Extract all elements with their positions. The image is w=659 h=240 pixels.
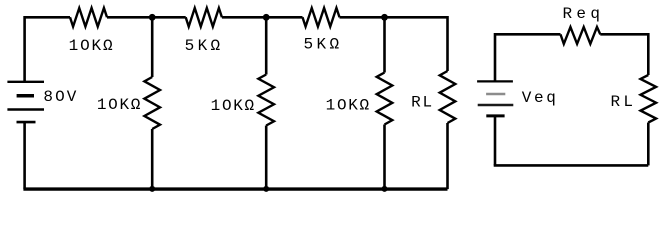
svg-text:RL: RL [411,93,432,111]
battery Veq plate 1 (long, +) [477,80,513,82]
resistor R6 10KΩ (shunt at node C) [377,73,393,125]
wire: RL (left circuit) down to bottom rail [446,123,449,189]
svg-text:Req: Req [562,5,600,23]
wire: left circuit bottom rail [23,187,447,190]
wire: R2 down to bottom rail [151,129,154,189]
resistor R5 5KΩ (series, right) [303,8,340,27]
svg-text:8OV: 8OV [43,88,76,106]
battery Veq plate 4 (short, -) [486,114,504,117]
svg-text:RL: RL [610,93,633,111]
node C junction dot (top) [381,14,388,21]
battery V1 80V plate 2 (short thick, -) [17,94,34,98]
wire: top rail segment R1 to R3 (through node A) [107,16,186,19]
junction dot bottom rail under node B [263,186,269,192]
svg-text:1OKΩ: 1OKΩ [326,96,370,114]
wire: node A down to R2 [151,17,154,77]
resistor R2 10KΩ (shunt at node A) [144,77,160,129]
battery V1 80V plate 4 (short, -) [17,121,36,124]
wire: RL (right circuit) down to bottom rail [647,123,650,166]
wire: R6 down to bottom rail [383,125,386,190]
resistor RL (right circuit load) [641,75,657,123]
wire: node C down to R6 [383,17,386,72]
wire: left rail up from battery + around top-left corner to R1 [25,17,70,81]
battery V1 80V plate 3 (long, +) [7,108,44,110]
junction dot bottom rail under node C [382,186,388,192]
wire: right circuit top rail right segment (Req to corner) [600,34,648,75]
junction dot bottom rail under node A [149,186,155,192]
battery Veq plate 3 (long, +) [478,104,514,107]
wire: top rail segment R5 to top-right corner (through node C) [340,17,448,71]
svg-text:5KΩ: 5KΩ [304,36,340,54]
node A junction dot (top) [149,14,156,21]
wire: right circuit top rail left segment (corner to Req) [495,34,561,80]
svg-text:1OKΩ: 1OKΩ [69,37,113,55]
resistor R3 5KΩ (series, middle) [186,8,222,27]
battery V1 80V plate 1 (long, +) [7,81,44,83]
wire: node B down to R4 [265,17,268,74]
resistor Req (right circuit series) [561,27,601,44]
wire: top rail segment R3 to R5 (through node B) [222,16,303,19]
wire: Veq - down to right circuit bottom rail [494,117,497,166]
resistor R4 10KΩ (shunt at node B) [258,75,274,126]
resistor RL (left circuit load) [440,71,456,123]
svg-text:Veq: Veq [522,89,556,107]
svg-text:1OKΩ: 1OKΩ [211,97,255,115]
wire: battery - to bottom-left corner [23,123,26,189]
node B junction dot (top) [263,14,270,21]
wire: R4 down to bottom rail [265,126,268,190]
resistor R1 10KΩ (series, top left) [70,8,107,27]
wire: right circuit bottom rail [494,164,649,167]
battery Veq plate 2 (short, faded gray) [486,93,505,96]
svg-text:1OKΩ: 1OKΩ [97,96,141,114]
svg-text:5KΩ: 5KΩ [185,37,221,55]
